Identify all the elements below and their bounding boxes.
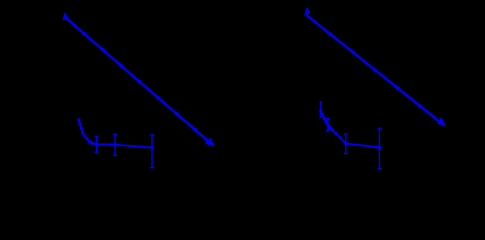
panel 2 line F2 arrow marker n2 [349, 49, 355, 54]
panel 1 line F1 arrow marker m3 [118, 63, 124, 68]
panel 2 line F2 arrow marker n3 [372, 67, 378, 72]
panel 1 line F1 arrow marker m7 [191, 127, 197, 132]
panel 2 line F2 start arrowhead [305, 8, 310, 15]
panel 1 curve D1 point markers [77, 118, 153, 149]
panel 2 line F2 arrow marker n4 [394, 85, 400, 90]
panel 2 data curve D2 [321, 111, 380, 148]
panel 1 fit line F1 [66, 18, 212, 145]
panel 2 error bar E2c [344, 134, 348, 154]
panel 2 error bar E2d [378, 128, 382, 168]
panel 2 line F2 end arrowhead [438, 118, 446, 125]
panel 1 line F1 arrow marker m2 [99, 47, 105, 52]
panel 1 line F1 arrow marker m5 [155, 95, 161, 101]
panel 1 line F1 arrow marker m1 [81, 31, 87, 36]
panel 2 error bar E2b [326, 119, 330, 131]
panel 1 data curve D1 [79, 120, 152, 148]
panel 2 error bar E2a [320, 102, 323, 117]
panel 2 line F2 arrow marker n1 [327, 31, 333, 36]
panel 1 line F1 arrow marker m4 [136, 79, 142, 84]
panel 2 fit line F2 [307, 15, 440, 122]
panel 1 line F1 arrow marker m6 [173, 111, 179, 116]
panel 2 line F2 arrow marker n5 [417, 104, 423, 109]
panel 2 curve D2 point markers [319, 109, 381, 149]
panel 1 error bar E1b [113, 134, 117, 155]
panel 1 line F1 end arrowhead [206, 139, 214, 147]
panel 1 error bar E1c [150, 135, 155, 168]
panel 1 line F1 start arrowhead [63, 13, 68, 20]
panel 1 error bar E1a [95, 136, 99, 152]
